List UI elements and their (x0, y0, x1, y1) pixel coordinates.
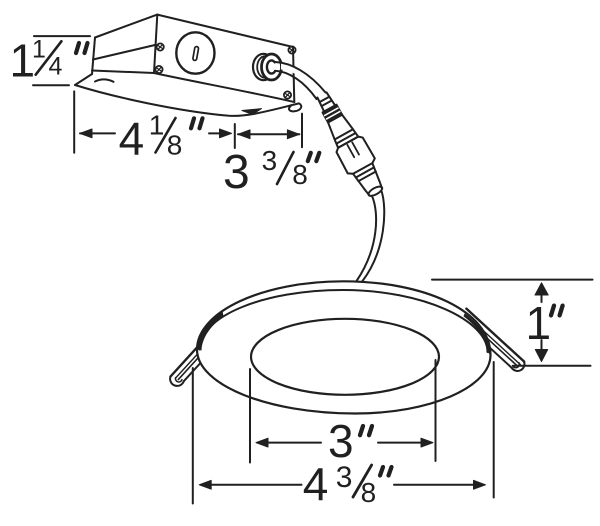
label 4-1/8 inch (119, 110, 203, 165)
junction box front face right edge (293, 47, 294, 102)
dimension 3in line and arrows (256, 438, 433, 447)
svg-text:8: 8 (361, 477, 377, 508)
svg-text:8: 8 (292, 159, 308, 190)
connector ridge band (323, 105, 343, 123)
inline connector P1 (308, 87, 390, 201)
dimension 3-3/8 line and arrows (238, 130, 299, 139)
dimension 1in bottom extension line (514, 365, 591, 367)
wire channel mask (281, 66, 320, 93)
cable gland inner bore (267, 60, 275, 73)
dimension 3in left extension line (249, 369, 251, 463)
dimension 4-1/8 left extension line (73, 91, 75, 152)
svg-text:3: 3 (262, 145, 278, 176)
rolled edge right thick crescent (464, 313, 491, 355)
cable gland front ring (262, 54, 282, 80)
dimension 3-3/8 right extension line (301, 114, 303, 148)
dimension 4-3/8 left extension line (192, 368, 194, 504)
label 3-3/8 inch (223, 145, 319, 199)
flange slot arc (95, 79, 114, 81)
taper bands (356, 167, 376, 181)
trim rolled edge inner line E1b (200, 290, 488, 352)
knockout circle U1 (176, 32, 214, 73)
dimension 4-3/8 right extension line (493, 362, 495, 498)
screw S4 (284, 91, 291, 98)
dimension 1-1/4 top extension line (34, 35, 90, 37)
dimension 1-1/4 bottom extension line (33, 84, 69, 86)
dimension 3in right extension line (435, 360, 437, 461)
cable gland back washer outer (253, 54, 274, 80)
connector cone body (326, 114, 353, 140)
connector collar (334, 129, 358, 148)
dimension 4-3/8 line and arrows (199, 480, 485, 489)
connector boot (317, 92, 336, 112)
wire from connector to light left side (357, 196, 377, 281)
svg-text:1: 1 (32, 36, 46, 64)
flange fold tab (242, 109, 262, 115)
wire from connector to light right side (363, 191, 385, 281)
junction box front face top edge (157, 15, 293, 47)
connector taper (353, 163, 381, 190)
screw S3 (288, 46, 295, 53)
dimension 1in top extension line (432, 279, 593, 281)
junction box bottom left edge (92, 71, 154, 74)
cable gland back washer inner (257, 56, 273, 78)
label 1-1/4 inch (10, 34, 88, 86)
junction box front face left edge (154, 15, 157, 73)
svg-text:8: 8 (167, 130, 183, 161)
connector tail (365, 181, 384, 196)
left spring clip (168, 345, 209, 388)
junction box mounting flange outline (75, 85, 301, 116)
junction box bottom front edge (154, 73, 294, 102)
dimension 4-1/8 line and arrows (80, 129, 232, 138)
downlight trim outer rim E1 (197, 281, 491, 413)
wire from gland to connector lower (275, 71, 317, 99)
svg-text:4: 4 (49, 53, 63, 81)
svg-text:4: 4 (119, 113, 145, 165)
lens ellipse (251, 319, 439, 395)
junction box left face seam (93, 45, 155, 60)
svg-text:3: 3 (328, 415, 354, 467)
rolled edge left thick crescent (197, 311, 224, 351)
svg-text:4: 4 (303, 458, 329, 510)
label 4-3/8 inch (303, 458, 392, 510)
wire from gland to connector upper (276, 62, 326, 93)
connector coupling block (335, 135, 377, 176)
coupling block ticks (347, 142, 359, 157)
svg-text:1: 1 (526, 297, 552, 349)
label 1 inch (526, 297, 563, 349)
screw S2 (155, 66, 162, 73)
dimension 4-1/8 right extension line (234, 124, 236, 148)
svg-text:1: 1 (149, 110, 165, 141)
right spring clip (457, 309, 526, 374)
junction box flange left edge (75, 74, 92, 85)
junction box left face top edge (95, 15, 157, 38)
knockout slot (193, 46, 199, 60)
dimension 1in vertical line and arrows (535, 283, 548, 362)
connector end cap (367, 185, 383, 198)
svg-text:3: 3 (223, 146, 250, 199)
screw S1 (157, 43, 164, 50)
junction box left face back edge (92, 38, 95, 75)
svg-text:3: 3 (336, 461, 353, 494)
label 3 inch (328, 415, 372, 467)
